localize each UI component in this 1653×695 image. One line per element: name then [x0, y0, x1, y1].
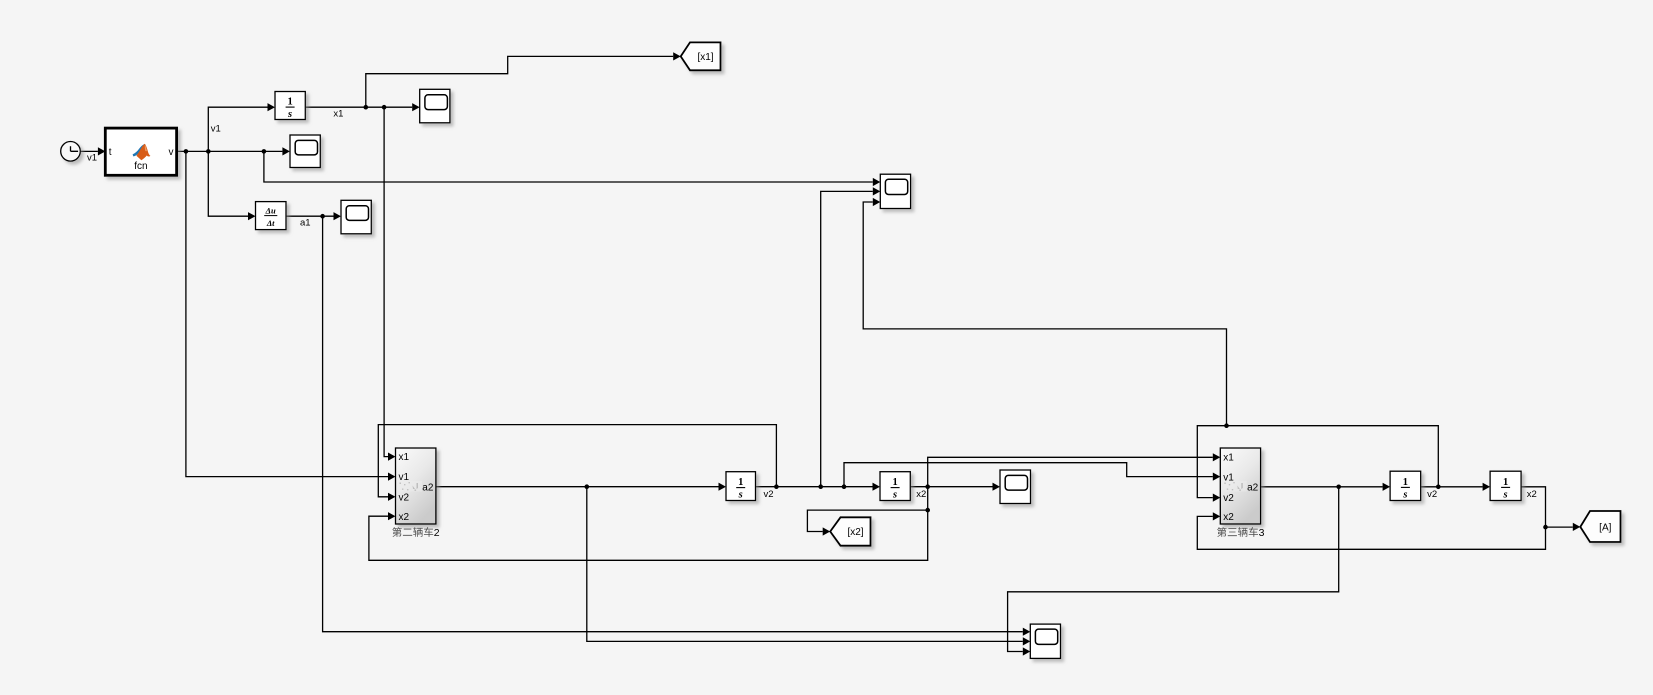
- svg-text:v2: v2: [764, 489, 774, 500]
- svg-text:3: 3: [1259, 527, 1265, 539]
- svg-text:v2: v2: [1223, 493, 1234, 504]
- svg-text:1: 1: [1403, 477, 1408, 488]
- wire x2 to subsystem3 x1 input: [928, 457, 1213, 486]
- svg-text:x1: x1: [399, 452, 410, 463]
- scope x2: [1000, 470, 1031, 504]
- wire v2 feedback to subsystem2 v2 input: [378, 425, 776, 497]
- MATLAB logo in fcn block: [133, 144, 151, 160]
- svg-text:Δu: Δu: [265, 205, 276, 215]
- wire x2 row: [910, 486, 992, 488]
- svg-text:a1: a1: [300, 217, 311, 228]
- wire x2 to goto [x2]: [807, 510, 927, 531]
- svg-text:x2: x2: [1223, 512, 1234, 523]
- goto tag [A]: [1580, 511, 1620, 542]
- wire v2 of car3 row: [1421, 486, 1483, 488]
- svg-text:s: s: [1402, 489, 1407, 500]
- wire fcn output v row: [177, 150, 283, 152]
- bottom 3-input scope (a1 a2 a3): [1030, 624, 1060, 658]
- svg-text:fcn: fcn: [134, 161, 147, 172]
- junction dots: [184, 149, 189, 154]
- svg-text:t: t: [109, 147, 112, 158]
- subsystem 第二辆车2: [396, 448, 436, 524]
- svg-text:1: 1: [738, 477, 743, 488]
- svg-text:[x2]: [x2]: [847, 527, 863, 538]
- svg-text:s: s: [738, 490, 743, 501]
- wire a2 down to bottom scope input2: [587, 487, 1023, 642]
- svg-text:[x1]: [x1]: [697, 52, 713, 63]
- svg-text:v2: v2: [1427, 489, 1437, 500]
- svg-text:1: 1: [1503, 477, 1508, 488]
- svg-text:1: 1: [892, 477, 897, 488]
- wire clock to fcn: [80, 150, 98, 152]
- svg-text:s: s: [1503, 489, 1508, 500]
- svg-text:2: 2: [434, 527, 440, 539]
- wire v down to derivative: [208, 151, 248, 216]
- wire a1 row: [286, 215, 334, 217]
- clock block: [61, 142, 81, 162]
- 3-input scope (v1 v2 v3): [880, 174, 910, 208]
- wire v2 to 3-input scope input2: [821, 191, 873, 486]
- goto tag [x2]: [830, 517, 870, 545]
- svg-text:1: 1: [287, 97, 292, 108]
- svg-text:[A]: [A]: [1599, 523, 1611, 534]
- svg-text:v2: v2: [399, 492, 410, 503]
- integrator 1/s (car2 x2): [880, 472, 910, 501]
- wire x2 of car3 feedback to subsystem3 x2 input: [1197, 516, 1545, 549]
- wire a2 of car3 down to bottom scope input3: [1008, 487, 1339, 652]
- integrator 1/s (car3 v2): [1390, 471, 1421, 500]
- label 第三辆车3: [1217, 527, 1265, 539]
- signal labels: [87, 108, 1537, 500]
- wire v2 of car3 feedback to subsystem3 v2 input: [1197, 426, 1438, 498]
- wire x1 down to subsystem2 x1 input: [384, 107, 388, 456]
- goto tag [x1]: [681, 42, 721, 70]
- svg-text:Δt: Δt: [266, 218, 275, 228]
- svg-text:x1: x1: [333, 108, 343, 119]
- wire v1 to 3-input scope input1: [264, 151, 873, 182]
- integrator 1/s (car2 v2): [726, 472, 756, 501]
- MATLAB Function block fcn: [105, 128, 176, 175]
- svg-text:v1: v1: [211, 124, 221, 135]
- wire x2 feedback to subsystem2 x2 input: [369, 487, 928, 561]
- svg-text:a2: a2: [1247, 482, 1259, 493]
- scope x1: [420, 89, 450, 123]
- wire v2 of car3 to 3-input scope input3: [863, 202, 1226, 426]
- svg-text:s: s: [892, 490, 897, 501]
- wire x1 row: [305, 106, 412, 108]
- subsystem 第三辆车3: [1220, 448, 1260, 524]
- wire a2 of subsystem3 to integrator: [1261, 486, 1383, 488]
- wire v up to integrator 1/s: [208, 107, 267, 151]
- wire x1 to goto [x1]: [366, 56, 673, 107]
- wire x2 of car3 to goto [A]: [1521, 487, 1573, 527]
- wire v down to subsystem2 v1 input: [186, 151, 388, 476]
- wire v2 row: [756, 486, 873, 488]
- scope v1: [290, 135, 320, 168]
- arrowheads: [98, 147, 106, 155]
- scope a1: [341, 200, 371, 234]
- svg-text:a2: a2: [422, 482, 434, 493]
- wire a2 of subsystem2 to integrator: [436, 486, 719, 488]
- svg-text:x1: x1: [1223, 453, 1234, 464]
- derivative du/dt: [256, 202, 287, 230]
- wire a1 down to bottom scope input1: [323, 216, 1023, 632]
- integrator 1/s (x1): [275, 92, 305, 121]
- svg-text:x2: x2: [916, 489, 926, 500]
- svg-text:x2: x2: [1527, 489, 1537, 500]
- svg-text:v1: v1: [87, 153, 97, 164]
- wire v2 to subsystem3 v1 input: [844, 463, 1213, 487]
- svg-text:s: s: [287, 109, 292, 120]
- label 第二辆车2: [392, 527, 440, 539]
- svg-text:x2: x2: [399, 512, 410, 523]
- svg-text:v: v: [169, 147, 174, 158]
- integrator 1/s (car3 x2): [1490, 471, 1521, 500]
